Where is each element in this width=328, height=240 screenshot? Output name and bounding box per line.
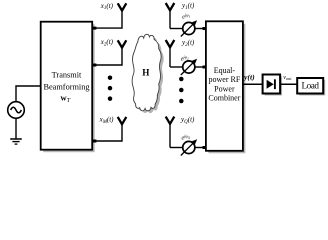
svg-text:y1(t): y1(t) [181,2,195,11]
wire y2 to phase shifter [170,66,183,68]
antenna xM [118,117,127,124]
wire x2 feed [92,47,122,66]
antenna x1 [118,3,127,10]
node tx ellipsis dots [108,75,113,100]
svg-text:Beamforming: Beamforming [43,83,89,92]
svg-text:yQ(t): yQ(t) [180,115,195,124]
block U1 Transmit Beamforming wT [41,22,95,153]
svg-text:Power: Power [214,84,235,93]
wire xM feed [92,124,122,143]
antenna yQ [166,117,175,148]
svg-text:x1(t): x1(t) [100,2,114,11]
wire y1 to combiner [195,27,207,30]
phase shifter PSQ [181,139,197,155]
phase shifter PS1 [181,20,197,36]
svg-text:xM(t): xM(t) [99,116,115,125]
svg-text:Combiner: Combiner [208,93,240,102]
wire combiner to rectifier [243,83,263,85]
antenna y2 [166,40,175,67]
antenna x2 [118,40,127,47]
wire x1 feed [92,10,122,29]
wire y2 to combiner [195,66,207,69]
svg-text:y(t): y(t) [243,73,255,82]
AC source V1 [8,102,25,119]
svg-text:H: H [142,68,149,78]
load RL [297,78,325,96]
svg-text:power RF: power RF [209,75,241,84]
svg-text:x2(t): x2(t) [100,38,114,47]
svg-text:Equal-: Equal- [214,66,236,75]
wire source bottom stem [15,118,17,139]
wire y1 to phase shifter [170,28,183,30]
wire source top stem [16,86,42,102]
wire rectifier to load [280,83,297,85]
wire yQ to combiner [195,146,207,149]
svg-text:y2(t): y2(t) [181,38,195,47]
block U2 Equal-power RF Power Combiner [206,21,246,153]
svg-text:Transmit: Transmit [52,71,82,80]
wire yQ to phase shifter [170,147,183,149]
rectifier D1 [263,75,283,96]
svg-text:vout: vout [283,75,292,81]
phase shifter PS2 [181,59,197,75]
svg-text:Load: Load [301,81,319,91]
ground [10,139,22,144]
node rx ellipsis dots [179,77,184,104]
channel cloud H [132,34,164,113]
antenna y1 [166,3,175,29]
